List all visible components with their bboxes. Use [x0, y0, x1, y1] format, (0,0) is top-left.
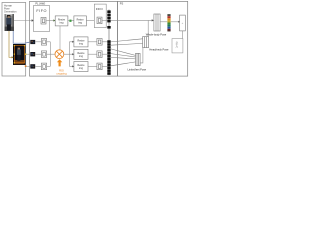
- resize block RZ1: [74, 16, 87, 26]
- svg-text:Resize: Resize: [77, 19, 85, 21]
- wire green reg -> RZ1: [72, 20, 74, 22]
- merge box: [180, 15, 186, 31]
- wires Q -> bus: [102, 41, 107, 43]
- wire photo1 -> crop row 1 (blue image path): [13, 31, 30, 43]
- svg-text:Whole-body Pose: Whole-body Pose: [146, 32, 167, 36]
- FIFO symbol Q3: [97, 63, 102, 70]
- svg-text:FIFO: FIFO: [96, 7, 104, 11]
- FIFO box 1: [34, 6, 50, 32]
- FIFO symbol S2: [41, 51, 46, 58]
- wires RB -> right FIFO symbols: [88, 41, 97, 43]
- FIFO symbol F1: [41, 17, 46, 24]
- heatmap stack: [167, 14, 170, 31]
- svg-text:cropping: cropping: [56, 72, 67, 76]
- resize block RB3: [74, 62, 88, 72]
- wire photo1 -> photo2 (yellow ROI path): [9, 31, 12, 57]
- wire stack -> merge box: [171, 21, 179, 23]
- svg-text:Resize: Resize: [77, 53, 85, 55]
- svg-text:PL (HW): PL (HW): [35, 2, 45, 6]
- wire FIFO2 -> bus: [102, 20, 107, 22]
- svg-text:Generation: Generation: [4, 11, 17, 14]
- svg-text:Head/neck Pose: Head/neck Pose: [149, 48, 169, 52]
- wire RZ1 -> FIFO2: [86, 20, 97, 22]
- wire RZ0 -> green reg: [68, 20, 70, 22]
- bus rail: [108, 10, 110, 76]
- bus pins bottom group: [107, 40, 110, 74]
- wire T2 -> S2: [35, 53, 41, 55]
- fanout branch wires: [69, 41, 73, 43]
- wire RZ0 bottom -> multiplier top: [59, 26, 61, 50]
- svg-text:Resize: Resize: [77, 40, 85, 42]
- svg-text:Resize: Resize: [58, 19, 66, 21]
- big box: PL (hardware) section: [30, 1, 118, 76]
- wire box B -> box A: [140, 48, 143, 63]
- svg-text:Limbs/feet Pose: Limbs/feet Pose: [127, 68, 146, 72]
- wire FIFO1 -> resize block: [46, 20, 54, 22]
- merge vertical wire: [49, 42, 51, 67]
- box A (head/neck NN): [143, 37, 149, 48]
- crop thumbnail T2: [30, 52, 35, 56]
- wire T1 -> S1: [35, 41, 41, 43]
- FIFO symbol S3: [41, 63, 46, 70]
- fanout vertical wire: [68, 42, 70, 67]
- wire NN -> heatmap stack: [160, 21, 167, 23]
- long wire bus -> NN box: [111, 19, 153, 21]
- svg-text:PS: PS: [120, 2, 124, 6]
- svg-text:FIFO: FIFO: [36, 9, 47, 13]
- ROI bounding box: [14, 46, 24, 63]
- FIFO box 2: [94, 4, 106, 28]
- wire photo1 -> FIFO1: [14, 20, 33, 22]
- FIFO symbol Q2: [97, 51, 102, 58]
- resize block RZ0: [55, 16, 68, 26]
- wires S1..S3 -> merge line: [47, 41, 51, 43]
- box B (limbs NN): [136, 53, 141, 65]
- photo 1 (input person image): [5, 14, 15, 31]
- ROI handles: [14, 45, 15, 46]
- wire T3 -> S3: [35, 65, 41, 67]
- photo 2 (ROI-annotated image): [13, 44, 26, 67]
- resize block RB2: [74, 49, 88, 59]
- FIFO symbol S1: [41, 39, 46, 46]
- resize block RB1: [74, 37, 88, 47]
- svg-text:Resize: Resize: [77, 65, 85, 67]
- multiplier (ROI crop) circle: [55, 50, 64, 59]
- orange up arrow (ROI control): [57, 59, 62, 66]
- wire multiplier -> fanout: [64, 53, 73, 55]
- wire merge box -> result: [181, 31, 183, 39]
- wire photo2 -> crop row 2: [26, 53, 30, 55]
- crop thumbnail T1: [30, 40, 35, 44]
- NN box (whole body): [154, 14, 160, 31]
- bus pins top group: [107, 10, 110, 28]
- FIFO symbol Q1: [97, 39, 102, 46]
- wires bus -> box A: [111, 39, 143, 45]
- crop thumbnail T3: [30, 64, 35, 68]
- left box: Human Pose Generation: [2, 3, 26, 77]
- wire photo2 -> crop row 3: [26, 65, 30, 67]
- result image box: [172, 39, 183, 53]
- wires bus -> box B: [111, 49, 136, 66]
- wire merge -> multiplier: [50, 53, 55, 55]
- FIFO symbol F2: [97, 17, 102, 24]
- big box: PS (software) section: [118, 1, 188, 76]
- wire junction down to box A: [147, 20, 149, 36]
- stick figure: [176, 42, 179, 48]
- green register: [69, 20, 71, 22]
